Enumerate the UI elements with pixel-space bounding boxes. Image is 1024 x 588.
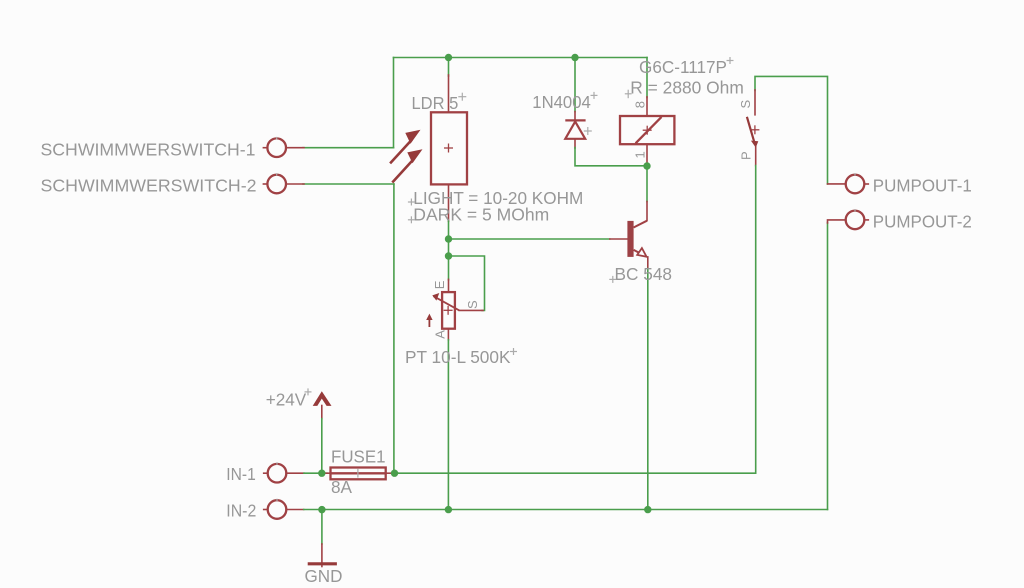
svg-text:SCHWIMMWERSWITCH-1: SCHWIMMWERSWITCH-1 <box>41 139 256 159</box>
pad SCHWIMMWERSWITCH-2 <box>263 173 286 193</box>
relay coil diagonal <box>636 117 662 143</box>
pin +24V supply stub (red) <box>321 406 323 419</box>
LDR light arrow 2 <box>392 149 422 182</box>
pin diode cathode (red) <box>574 112 576 121</box>
svg-text:PT 10-L 500K: PT 10-L 500K <box>405 347 511 367</box>
wire GND stub down <box>321 510 323 544</box>
svg-text:IN-2: IN-2 <box>226 501 256 521</box>
svg-text:E: E <box>432 280 447 289</box>
wire pot S branch: right, down, left <box>449 256 485 311</box>
wire PUMPOUT-2 vertical down to IN-2 net <box>827 223 829 510</box>
transistor Q1 base bar <box>627 221 633 257</box>
origin cross PT <box>510 348 517 355</box>
wire switch S top: up and right to PUMPOUT-1 column <box>755 76 828 183</box>
pin fuse right (red) <box>386 472 398 474</box>
wire SCHWIMMWERSWITCH-1 to left vertical <box>303 147 394 149</box>
svg-text:SCHWIMMWERSWITCH-2: SCHWIMMWERSWITCH-2 <box>41 176 257 196</box>
wire node B down to pot E pin <box>448 256 450 280</box>
pin fuse left (red) <box>322 472 331 474</box>
pin PUMPOUT-1 stub (red) <box>828 183 846 185</box>
junction J5 node B pot <box>445 252 452 259</box>
pad IN-1 <box>264 462 287 482</box>
potentiometer wiper arrowhead <box>432 293 439 301</box>
pin diode anode (red) <box>574 139 576 148</box>
pin SCHWIMMWERSWITCH-2 stub (red) <box>286 183 304 185</box>
potentiometer origin cross (red +) <box>444 306 453 315</box>
wire switch P down to IN-1 net <box>755 166 757 474</box>
origin cross LIGHT <box>408 199 415 206</box>
supply +24V arrow symbol <box>313 391 332 406</box>
pin pot A bottom (red) <box>447 329 449 340</box>
junction J9 pot bottom on IN-2 <box>445 506 452 513</box>
junction J1 LDR top <box>445 54 452 61</box>
pin switch P terminal (red) <box>755 147 757 166</box>
junction J7 fuse output <box>391 470 398 477</box>
pin LDR bottom (red) <box>448 184 450 221</box>
svg-text:1N4004: 1N4004 <box>532 92 591 112</box>
wire emitter down to IN-2 net <box>647 269 649 510</box>
origin cross 1N4004 <box>591 92 598 99</box>
junction J3 relay pin1 node <box>643 162 650 169</box>
pin transistor collector vertical (red) <box>646 202 648 221</box>
wire IN-1 net: fuse output across to switch P column <box>395 472 756 474</box>
origin cross BC548 <box>609 276 616 283</box>
pin switch S terminal (red) <box>754 90 756 115</box>
svg-text:GND: GND <box>305 566 343 586</box>
potentiometer adjust arrow (up) <box>426 314 432 327</box>
switch origin cross (red +) <box>750 125 759 134</box>
wire relay pin1 node down to collector <box>646 166 648 202</box>
origin cross DARK <box>408 216 415 223</box>
pin pot wiper S horizontal (red) <box>459 309 483 311</box>
pad PUMPOUT-2 <box>846 209 869 229</box>
wire pot bottom down to IN-2 net <box>447 340 449 510</box>
svg-text:1: 1 <box>633 151 648 158</box>
pad SCHWIMMWERSWITCH-1 <box>263 137 286 157</box>
wire IN-2 net horizontal <box>304 509 828 511</box>
pin transistor base (red) <box>610 238 628 240</box>
diode origin cross (grey +) <box>584 127 592 135</box>
wire net VCC left vertical upper <box>393 58 395 148</box>
junction J2 diode top <box>571 54 578 61</box>
resistor LDR body <box>431 112 467 184</box>
wire +24V down to IN-1 net <box>321 419 323 474</box>
pad PUMPOUT-1 <box>846 173 869 193</box>
relay coil K1 body <box>620 116 674 144</box>
svg-text:S: S <box>465 300 480 309</box>
wire LDR bottom to node A <box>448 221 450 256</box>
switch contact blade <box>747 117 755 144</box>
switch blade arrowhead <box>751 141 758 148</box>
wire net VCC top horizontal <box>394 57 648 59</box>
origin cross +24V <box>305 388 312 395</box>
pin transistor emitter vertical (red) <box>647 257 649 269</box>
transistor emitter diagonal <box>634 250 640 253</box>
svg-text:IN-1: IN-1 <box>226 464 256 484</box>
LDR origin cross (red +) <box>444 144 453 153</box>
wire base net horizontal <box>449 238 610 240</box>
junction J8 GND on IN-2 <box>318 506 325 513</box>
svg-text:PUMPOUT-2: PUMPOUT-2 <box>873 211 972 231</box>
origin cross LDR 5 <box>458 93 466 101</box>
wire IN-1 to fuse junction <box>304 472 327 474</box>
svg-text:R = 2880 Ohm: R = 2880 Ohm <box>630 77 744 97</box>
svg-text:+24V: +24V <box>266 390 307 410</box>
transistor collector diagonal <box>634 221 647 228</box>
fuse FUSE1 body <box>331 468 386 480</box>
wire SCHWIMMWERSWITCH-2 horizontal <box>303 183 394 185</box>
svg-text:P: P <box>739 151 754 160</box>
relay origin cross (red +) <box>643 126 652 135</box>
svg-text:8: 8 <box>633 101 648 108</box>
fuse middle line <box>331 472 385 474</box>
origin cross G6C <box>727 57 734 64</box>
svg-text:S: S <box>738 100 753 109</box>
LDR light arrow 1 <box>390 130 420 164</box>
wire diode top net stub <box>574 58 576 112</box>
svg-text:G6C-1117P: G6C-1117P <box>639 57 727 77</box>
pin IN-2 stub (red) <box>286 509 304 511</box>
junction J4 node A base <box>445 235 452 242</box>
potentiometer wiper diagonal <box>434 296 460 310</box>
transistor emitter arrow (open) <box>637 248 646 257</box>
pin potentiometer E (red) <box>448 279 450 292</box>
ground GND bar <box>308 562 337 565</box>
junction J6 +24V on IN-1 <box>318 470 325 477</box>
svg-text:FUSE1: FUSE1 <box>331 447 386 467</box>
pin SCHWIMMWERSWITCH-1 stub (red) <box>286 147 304 149</box>
svg-text:A: A <box>433 330 448 339</box>
wire LDR top pin net stub <box>448 58 450 77</box>
wire net left vertical lower (SCHWIMMERSWITCH-2 down to fuse output) <box>393 184 395 473</box>
pin PUMPOUT-2 stub (red) <box>828 220 846 223</box>
origin cross R= <box>625 90 632 99</box>
pad IN-2 <box>264 499 287 519</box>
svg-text:BC 548: BC 548 <box>615 264 673 284</box>
svg-text:LDR 5: LDR 5 <box>412 93 459 113</box>
pin GND symbol (red) <box>321 544 323 567</box>
potentiometer R2 body <box>442 292 455 329</box>
pin relay coil 1 (red) <box>646 144 648 166</box>
wire diode bottom to relay pin 1 node <box>575 148 647 166</box>
fuse origin cross (grey) <box>357 469 359 478</box>
svg-text:PUMPOUT-1: PUMPOUT-1 <box>873 176 972 196</box>
diode D1 1N4004 cathode bar <box>565 119 585 121</box>
junction J10 emitter on IN-2 <box>644 506 651 513</box>
pin IN-1 stub (red) <box>286 472 304 474</box>
pin relay coil 8 (red) <box>646 97 648 116</box>
wire relay coil top net stub <box>646 58 648 98</box>
svg-text:8A: 8A <box>331 477 352 497</box>
svg-text:DARK = 5 MOhm: DARK = 5 MOhm <box>413 205 549 225</box>
diode D1 anode triangle <box>565 122 585 139</box>
pin LDR top (red) <box>448 75 450 112</box>
